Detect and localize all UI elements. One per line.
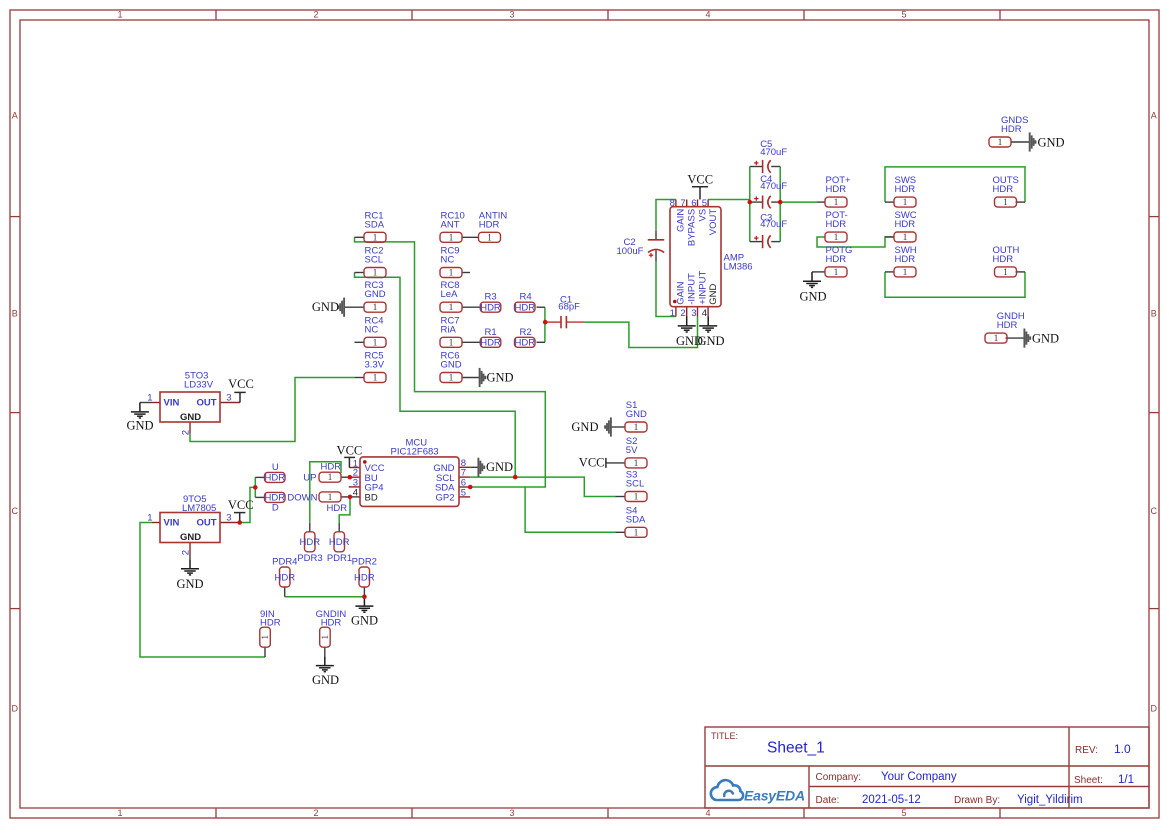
svg-text:Company:: Company: [816, 772, 862, 783]
svg-text:HDR: HDR [480, 303, 501, 314]
svg-text:HDR: HDR [826, 184, 847, 195]
svg-text:GND: GND [312, 300, 339, 314]
svg-text:GND: GND [697, 334, 724, 348]
svg-text:2: 2 [313, 10, 318, 20]
svg-text:HDR: HDR [895, 184, 916, 195]
svg-text:D: D [12, 704, 19, 714]
svg-text:100uF: 100uF [617, 246, 644, 257]
svg-text:Yigit_Yildirim: Yigit_Yildirim [1017, 794, 1083, 806]
svg-text:GND: GND [180, 532, 201, 543]
svg-text:LD33V: LD33V [184, 380, 214, 391]
svg-text:VOUT: VOUT [708, 209, 719, 236]
svg-text:EasyEDA: EasyEDA [744, 788, 805, 804]
svg-text:NC: NC [441, 255, 455, 266]
svg-text:HDR: HDR [300, 537, 321, 548]
svg-text:SCL: SCL [365, 255, 383, 266]
svg-text:HDR: HDR [515, 338, 536, 349]
svg-text:LeA: LeA [441, 289, 459, 300]
svg-text:5: 5 [461, 487, 466, 498]
svg-text:4: 4 [705, 10, 710, 20]
svg-text:GND: GND [626, 409, 647, 420]
svg-text:SDA: SDA [365, 219, 385, 230]
svg-text:R2: R2 [520, 327, 532, 338]
svg-text:GND: GND [487, 370, 514, 384]
svg-text:HDR: HDR [329, 537, 350, 548]
svg-text:3: 3 [509, 808, 514, 818]
svg-text:PDR1: PDR1 [327, 553, 352, 564]
svg-text:2: 2 [181, 430, 192, 435]
svg-text:HDR: HDR [480, 338, 501, 349]
svg-text:8: 8 [670, 198, 675, 209]
svg-text:OUT: OUT [196, 398, 216, 409]
svg-text:1/1: 1/1 [1118, 774, 1134, 786]
svg-text:3: 3 [226, 392, 231, 403]
svg-text:D: D [1151, 704, 1158, 714]
svg-text:68pF: 68pF [558, 302, 580, 313]
svg-text:GND: GND [1032, 331, 1059, 345]
svg-text:REV:: REV: [1075, 745, 1098, 756]
svg-text:Date:: Date: [816, 795, 840, 806]
svg-text:Your Company: Your Company [881, 771, 957, 783]
svg-text:2: 2 [313, 808, 318, 818]
svg-text:HDR: HDR [993, 254, 1014, 265]
svg-text:D: D [272, 503, 279, 514]
svg-text:GND: GND [571, 420, 598, 434]
svg-text:VIN: VIN [164, 518, 180, 529]
svg-text:R3: R3 [485, 292, 497, 303]
svg-text:4: 4 [705, 808, 710, 818]
svg-text:HDR: HDR [275, 572, 296, 583]
svg-text:+INPUT: +INPUT [697, 271, 708, 305]
svg-text:UP: UP [303, 473, 316, 484]
svg-text:5V: 5V [626, 445, 638, 456]
svg-text:RiA: RiA [441, 324, 457, 335]
svg-text:470uF: 470uF [760, 147, 787, 158]
svg-text:3.3V: 3.3V [365, 360, 385, 371]
svg-text:7: 7 [680, 198, 685, 209]
svg-text:5: 5 [901, 808, 906, 818]
svg-text:NC: NC [365, 324, 379, 335]
svg-text:HDR: HDR [321, 618, 342, 629]
svg-text:470uF: 470uF [760, 219, 787, 230]
svg-text:HDR: HDR [895, 219, 916, 230]
svg-text:LM386: LM386 [724, 261, 753, 272]
svg-text:HDR: HDR [826, 219, 847, 230]
svg-text:B: B [12, 309, 18, 319]
svg-text:3: 3 [691, 308, 696, 319]
svg-text:GND: GND [176, 577, 203, 591]
svg-text:HDR: HDR [327, 503, 348, 514]
svg-text:PDR2: PDR2 [352, 557, 377, 568]
svg-text:-INPUT: -INPUT [687, 273, 698, 305]
svg-text:OUT: OUT [196, 518, 216, 529]
svg-text:VCC: VCC [687, 173, 713, 187]
svg-text:6: 6 [691, 198, 696, 209]
svg-text:HDR: HDR [354, 572, 375, 583]
svg-text:4: 4 [353, 487, 358, 498]
svg-text:R1: R1 [485, 327, 497, 338]
svg-text:3: 3 [226, 512, 231, 523]
svg-text:470uF: 470uF [760, 181, 787, 192]
svg-text:2: 2 [181, 550, 192, 555]
svg-text:GND: GND [180, 412, 201, 423]
svg-text:GND: GND [708, 284, 719, 305]
svg-text:TITLE:: TITLE: [711, 731, 738, 741]
svg-text:HDR: HDR [826, 254, 847, 265]
svg-text:VS: VS [697, 209, 708, 222]
svg-text:PDR4: PDR4 [272, 557, 297, 568]
svg-text:VCC: VCC [337, 444, 363, 458]
svg-text:DOWN: DOWN [287, 492, 317, 503]
svg-text:HDR: HDR [260, 618, 281, 629]
svg-text:5: 5 [702, 198, 707, 209]
svg-text:GND: GND [351, 613, 378, 627]
svg-text:1: 1 [670, 308, 675, 319]
svg-text:1: 1 [117, 808, 122, 818]
svg-text:VCC: VCC [228, 498, 254, 512]
svg-text:U: U [272, 462, 279, 473]
svg-text:5: 5 [901, 10, 906, 20]
svg-text:GND: GND [365, 289, 386, 300]
svg-text:GAIN: GAIN [676, 209, 687, 232]
svg-text:GND: GND [799, 290, 826, 304]
svg-text:HDR: HDR [1001, 124, 1022, 135]
svg-text:GND: GND [312, 673, 339, 687]
svg-text:Sheet:: Sheet: [1074, 775, 1103, 786]
svg-text:GP2: GP2 [435, 492, 454, 503]
svg-text:PIC12F683: PIC12F683 [391, 447, 439, 458]
svg-text:HDR: HDR [321, 462, 342, 473]
svg-text:GND: GND [441, 360, 462, 371]
svg-text:ANT: ANT [441, 219, 460, 230]
svg-text:HDR: HDR [895, 254, 916, 265]
svg-text:GND: GND [486, 460, 513, 474]
svg-text:C: C [12, 506, 19, 516]
svg-text:GAIN: GAIN [676, 281, 687, 304]
svg-text:BYPASS: BYPASS [687, 209, 698, 246]
svg-text:3: 3 [509, 10, 514, 20]
svg-text:PDR3: PDR3 [297, 553, 322, 564]
svg-text:SDA: SDA [626, 514, 646, 525]
svg-text:HDR: HDR [479, 219, 500, 230]
svg-text:HDR: HDR [997, 320, 1018, 331]
svg-text:VCC: VCC [579, 456, 605, 470]
svg-text:GND: GND [126, 418, 153, 432]
svg-text:2021-05-12: 2021-05-12 [862, 794, 921, 806]
svg-text:1: 1 [147, 392, 152, 403]
svg-text:A: A [1151, 110, 1157, 120]
svg-text:HDR: HDR [265, 473, 286, 484]
svg-text:B: B [1151, 309, 1157, 319]
svg-text:HDR: HDR [993, 184, 1014, 195]
svg-text:HDR: HDR [515, 303, 536, 314]
svg-text:VIN: VIN [164, 398, 180, 409]
svg-text:Drawn By:: Drawn By: [954, 795, 1000, 806]
svg-text:GND: GND [1038, 135, 1065, 149]
svg-text:BD: BD [365, 492, 378, 503]
svg-text:1.0: 1.0 [1114, 742, 1131, 756]
svg-text:2: 2 [680, 308, 685, 319]
svg-text:VCC: VCC [228, 377, 254, 391]
svg-text:C: C [1151, 506, 1158, 516]
svg-text:1: 1 [147, 512, 152, 523]
svg-text:A: A [12, 110, 18, 120]
svg-text:4: 4 [702, 308, 707, 319]
svg-text:1: 1 [117, 10, 122, 20]
svg-text:SCL: SCL [626, 479, 644, 490]
svg-text:Sheet_1: Sheet_1 [767, 740, 825, 757]
svg-text:R4: R4 [520, 292, 532, 303]
svg-text:LM7805: LM7805 [182, 503, 216, 514]
